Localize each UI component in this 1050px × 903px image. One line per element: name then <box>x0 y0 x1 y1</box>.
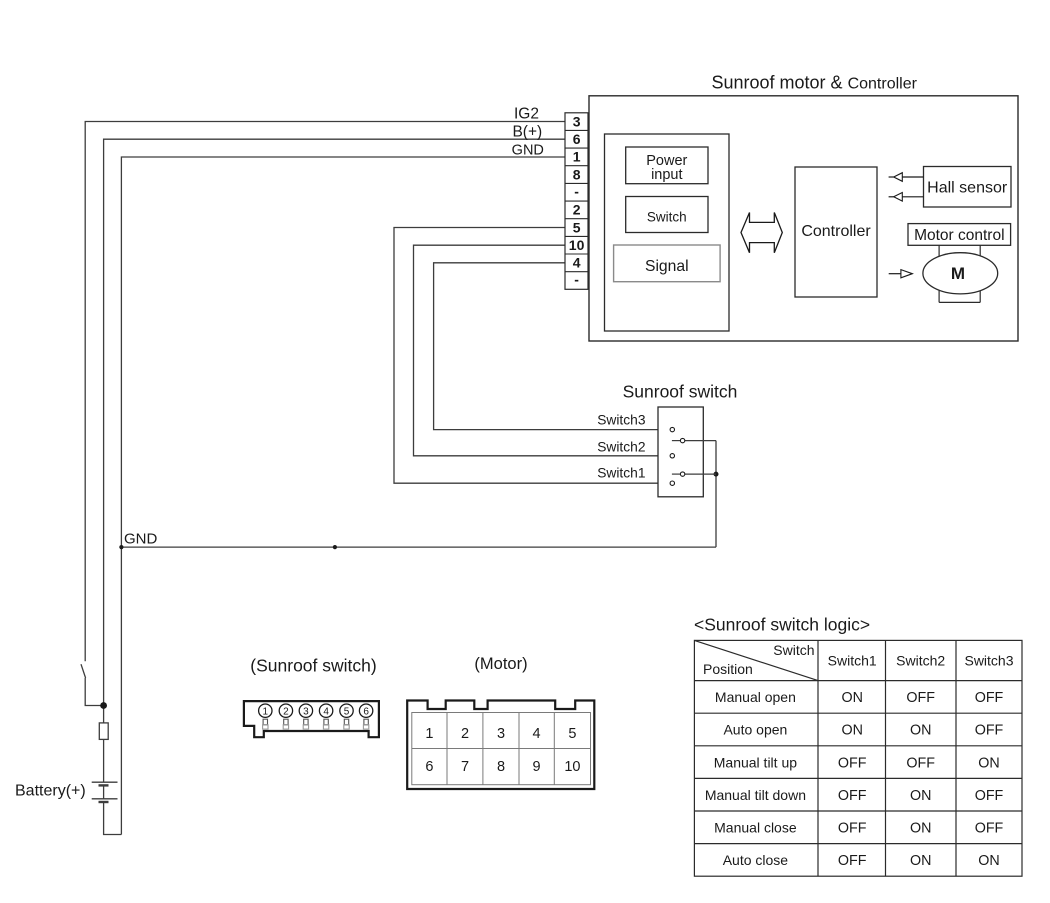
svg-text:Manual tilt down: Manual tilt down <box>705 787 806 803</box>
svg-text:3: 3 <box>303 706 309 717</box>
svg-text:5: 5 <box>573 219 581 235</box>
svg-text:10: 10 <box>569 237 585 253</box>
svg-text:2: 2 <box>461 726 469 742</box>
svg-text:GND: GND <box>512 143 544 159</box>
svg-text:OFF: OFF <box>838 788 867 804</box>
svg-text:Switch: Switch <box>773 642 814 658</box>
svg-text:2: 2 <box>573 202 581 218</box>
svg-text:OFF: OFF <box>838 821 867 837</box>
svg-text:8: 8 <box>573 166 581 182</box>
svg-text:OFF: OFF <box>975 690 1004 706</box>
svg-text:OFF: OFF <box>838 755 867 771</box>
svg-text:OFF: OFF <box>975 723 1004 739</box>
svg-text:Manual close: Manual close <box>714 820 797 836</box>
svg-text:<Sunroof switch logic>: <Sunroof switch logic> <box>694 614 870 634</box>
svg-text:Motor control: Motor control <box>914 227 1004 244</box>
svg-text:5: 5 <box>568 726 576 742</box>
svg-text:OFF: OFF <box>906 690 935 706</box>
svg-text:(Motor): (Motor) <box>474 655 527 673</box>
svg-text:3: 3 <box>573 113 581 129</box>
svg-text:ON: ON <box>910 853 931 869</box>
svg-text:ON: ON <box>910 788 931 804</box>
svg-text:6: 6 <box>573 131 581 147</box>
svg-text:OFF: OFF <box>975 788 1004 804</box>
svg-text:Battery(+): Battery(+) <box>15 783 86 800</box>
svg-text:ON: ON <box>841 690 862 706</box>
svg-text:GND: GND <box>124 530 158 547</box>
svg-text:Auto open: Auto open <box>723 722 787 738</box>
svg-text:input: input <box>651 167 682 183</box>
svg-text:(Sunroof switch): (Sunroof switch) <box>250 656 376 676</box>
svg-text:OFF: OFF <box>975 821 1004 837</box>
svg-text:10: 10 <box>564 759 580 775</box>
svg-text:1: 1 <box>425 726 433 742</box>
svg-text:4: 4 <box>533 726 541 742</box>
svg-text:7: 7 <box>461 759 469 775</box>
svg-text:Switch2: Switch2 <box>597 439 645 454</box>
svg-text:ON: ON <box>910 723 931 739</box>
svg-text:9: 9 <box>533 759 541 775</box>
svg-text:Switch2: Switch2 <box>896 653 945 669</box>
svg-text:4: 4 <box>323 706 329 717</box>
svg-text:IG2: IG2 <box>514 105 539 122</box>
svg-text:Switch1: Switch1 <box>597 466 645 481</box>
svg-text:M: M <box>951 264 965 283</box>
svg-text:2: 2 <box>283 706 289 717</box>
svg-text:Manual open: Manual open <box>715 689 796 705</box>
svg-text:OFF: OFF <box>906 755 935 771</box>
svg-text:6: 6 <box>363 706 369 717</box>
svg-text:ON: ON <box>978 755 999 771</box>
svg-text:Switch1: Switch1 <box>828 653 877 669</box>
svg-text:B(+): B(+) <box>512 123 542 140</box>
svg-text:OFF: OFF <box>838 853 867 869</box>
svg-text:Sunroof switch: Sunroof switch <box>623 382 738 402</box>
svg-text:Switch3: Switch3 <box>597 413 646 428</box>
svg-text:4: 4 <box>573 255 581 271</box>
svg-text:6: 6 <box>425 759 433 775</box>
svg-text:Manual tilt up: Manual tilt up <box>714 754 797 770</box>
svg-text:Switch: Switch <box>647 209 687 224</box>
svg-text:8: 8 <box>497 759 505 775</box>
svg-text:Controller: Controller <box>801 223 871 240</box>
svg-text:-: - <box>574 183 579 199</box>
svg-text:Sunroof motor & Controller: Sunroof motor & Controller <box>712 73 918 93</box>
svg-text:Hall sensor: Hall sensor <box>927 180 1008 197</box>
svg-text:3: 3 <box>497 726 505 742</box>
svg-text:Position: Position <box>703 661 753 677</box>
svg-text:ON: ON <box>841 723 862 739</box>
svg-text:-: - <box>574 272 579 288</box>
svg-text:Switch3: Switch3 <box>964 653 1013 669</box>
svg-text:1: 1 <box>263 706 269 717</box>
svg-text:ON: ON <box>978 853 999 869</box>
svg-text:5: 5 <box>344 706 350 717</box>
svg-text:Auto close: Auto close <box>723 852 789 868</box>
svg-text:ON: ON <box>910 821 931 837</box>
svg-text:Signal: Signal <box>645 258 689 275</box>
svg-text:1: 1 <box>573 149 581 165</box>
